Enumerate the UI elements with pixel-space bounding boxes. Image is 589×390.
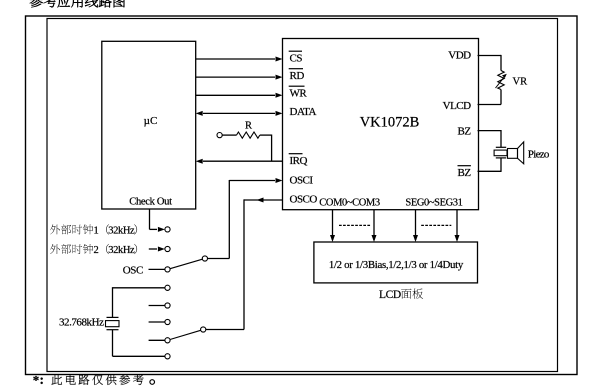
wire OSCI vertical <box>228 180 230 259</box>
svg-text:VLCD: VLCD <box>443 100 472 112</box>
svg-text:OSC: OSC <box>123 264 143 276</box>
svg-text:1: 1 <box>94 226 99 237</box>
switch SW1 (OSCI select) <box>170 259 202 269</box>
dashed bus SEG <box>421 224 451 226</box>
wire option stub 7 <box>149 339 165 341</box>
wire crystal top <box>113 287 165 317</box>
svg-text:OSCI: OSCI <box>290 175 314 187</box>
dashed bus COM <box>339 224 371 226</box>
wire OSC stub <box>149 268 165 270</box>
svg-text:32kHz: 32kHz <box>108 226 135 237</box>
svg-text:IRQ: IRQ <box>290 155 308 167</box>
wire BZ <box>478 130 502 147</box>
svg-text:VK1072B: VK1072B <box>360 114 420 130</box>
wire crystal bottom <box>113 330 165 357</box>
svg-text:2: 2 <box>94 245 99 256</box>
svg-text:BZ: BZ <box>458 167 472 179</box>
svg-text:LCD: LCD <box>379 289 401 301</box>
bus COM arrow 2 <box>372 210 377 242</box>
svg-text:Check Out: Check Out <box>129 197 172 208</box>
pin label RD (active low) <box>289 69 305 82</box>
wire R to IRQ line <box>271 135 273 162</box>
wire CS bus <box>196 57 283 62</box>
speaker horn <box>508 142 524 164</box>
wire OSCO <box>244 198 283 203</box>
wire option stub 5 <box>149 305 165 307</box>
wire Check Out <box>150 209 165 232</box>
wire switch to OSCI <box>208 258 230 260</box>
wire external clock 2 <box>149 247 165 252</box>
switch SW2 (OSCO select) <box>170 330 201 339</box>
svg-text:32.768kHz: 32.768kHz <box>59 317 104 329</box>
svg-text:VR: VR <box>513 77 528 88</box>
svg-text:VDD: VDD <box>448 50 471 62</box>
node terminal (pull-up input) <box>217 133 222 138</box>
node external clock 2 <box>165 246 170 251</box>
microcontroller U2 box <box>102 41 196 209</box>
svg-text:COM0~COM3: COM0~COM3 <box>319 198 380 209</box>
svg-text:BZ: BZ <box>458 125 472 137</box>
svg-text:Piezo: Piezo <box>528 148 550 160</box>
svg-text:*: * <box>33 372 40 387</box>
pin label IRQ (active low) <box>289 154 308 167</box>
label 外部时钟2 (32kHz) <box>50 244 137 256</box>
wire OSCI <box>229 178 282 183</box>
node external clock 1 <box>165 227 170 232</box>
wire IRQ <box>196 159 283 164</box>
title text 参考应用线路图 (clipped) <box>30 0 125 7</box>
svg-text:µC: µC <box>144 115 158 127</box>
svg-text:WR: WR <box>290 88 308 100</box>
bus COM arrow 1 <box>330 210 335 242</box>
wire BZ-bar <box>478 158 502 172</box>
svg-text:1/2 or 1/3Bias,1/2,1/3 or 1/4D: 1/2 or 1/3Bias,1/2,1/3 or 1/4Duty <box>329 259 464 271</box>
pin label CS (active low) <box>289 51 303 64</box>
wire WR bus <box>196 93 283 98</box>
footnote *: 此电路仅供参考 <box>33 372 155 388</box>
IC U1 VK1072B box <box>283 39 479 210</box>
svg-text:32kHz: 32kHz <box>108 245 135 256</box>
wire OSCO to switch <box>206 329 244 331</box>
wire option stub 6 <box>149 321 165 323</box>
wire VLCD <box>478 90 502 105</box>
svg-text:CS: CS <box>290 53 303 65</box>
node option 6 <box>165 319 170 324</box>
resistor R <box>222 132 271 138</box>
label 外部时钟1 (32kHz) <box>50 224 137 236</box>
bus SEG arrow 4 <box>455 210 460 242</box>
wire RD bus <box>196 75 283 80</box>
node option 5 <box>165 303 170 308</box>
bus SEG arrow 3 <box>413 210 418 242</box>
piezo element <box>494 147 507 158</box>
variable resistor VR <box>496 71 507 90</box>
svg-text:OSCO: OSCO <box>290 193 318 205</box>
wire OSCO vertical <box>243 199 245 329</box>
node OSC <box>165 267 170 272</box>
crystal X1 32.768kHz <box>106 317 120 329</box>
node crystal bottom <box>165 354 170 359</box>
pin label BZ (active low) <box>458 166 472 179</box>
svg-text:RD: RD <box>290 70 305 82</box>
svg-text::: : <box>39 373 44 388</box>
label LCD panel <box>379 288 423 301</box>
node OSCI switch pole <box>202 256 207 261</box>
svg-text:SEG0~SEG31: SEG0~SEG31 <box>405 198 462 209</box>
pin label WR (active low) <box>289 86 308 99</box>
svg-text:DATA: DATA <box>290 106 317 118</box>
LCD panel box <box>314 242 478 283</box>
node crystal top <box>165 285 170 290</box>
wire VDD <box>478 55 502 71</box>
svg-text:R: R <box>245 121 252 132</box>
wire DATA bus (bidirectional) <box>196 111 283 116</box>
node option 7 <box>165 338 170 343</box>
node OSCO switch pole <box>201 327 206 332</box>
